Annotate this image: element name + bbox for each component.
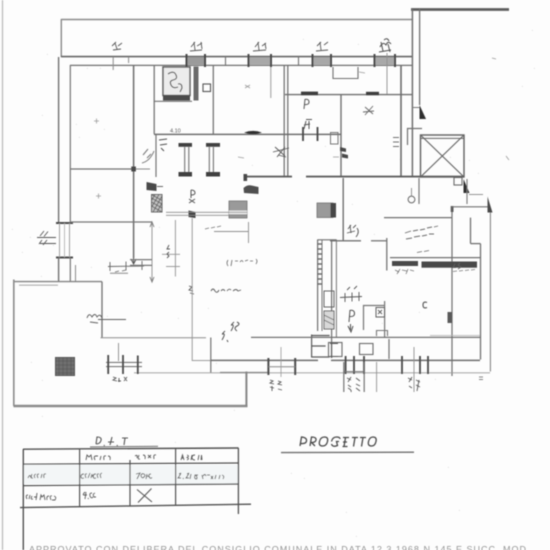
outer terrace top line — [61, 19, 412, 21]
right line y206 — [452, 206, 490, 208]
dim marks above wall cluster1 — [112, 42, 122, 50]
door jambs in wall y134 — [303, 127, 318, 141]
row2 col2 handwriting — [83, 492, 96, 499]
entrance lobby lines — [408, 129, 423, 146]
corridor wall y176 end cap — [244, 174, 248, 181]
left inner wall upper — [69, 65, 71, 223]
dim text 250 — [417, 251, 429, 253]
corridor wall y240 left — [330, 240, 361, 242]
bath left wall x154 — [153, 66, 155, 134]
central wall x285 — [283, 65, 285, 177]
double wall y265 — [130, 264, 152, 266]
closet box left of wall x341 — [331, 133, 339, 145]
balcony dark band left — [392, 261, 418, 266]
right wall top cap — [451, 206, 454, 212]
landing small rect below elevator — [454, 178, 462, 186]
row1 col2 handwriting — [81, 473, 102, 478]
door dim marks y266 — [108, 261, 144, 272]
row1 col3 handwriting — [136, 473, 152, 479]
outer wall x419 upper — [419, 9, 421, 105]
junction blob x133 y169 — [131, 167, 136, 172]
dim text 45 right — [453, 263, 461, 269]
svg-text:APPROVATO CON DELIBERA DEL CON: APPROVATO CON DELIBERA DEL CONSIGLIO COM… — [29, 544, 530, 550]
window W4 top wall — [374, 54, 396, 67]
dark blob on wall y94 left — [301, 92, 318, 96]
wall y257 right room — [390, 257, 480, 259]
wall y337 south — [251, 336, 480, 338]
variante text lines — [405, 226, 438, 239]
south jamb ticks mid — [346, 356, 364, 374]
bath fixtures south rect2 — [360, 344, 374, 355]
top wall band inner line — [70, 64, 412, 66]
landing tick y194 — [469, 194, 483, 196]
corridor wall y176 right segment — [306, 176, 464, 178]
table outer top — [23, 448, 239, 449]
gray rect top of hatch strip — [317, 203, 336, 218]
text below terrace window — [113, 377, 127, 382]
stair wall x419 below — [418, 178, 420, 204]
table row1 tint — [24, 465, 238, 484]
wall strip right of shower — [194, 67, 199, 101]
table bottom line — [20, 504, 251, 507]
right outer wall x480 — [480, 244, 482, 360]
terrace right wall x246 — [245, 372, 247, 407]
right outer wall x470 — [470, 218, 472, 244]
dim mark 2 — [189, 286, 194, 294]
wall x401 — [400, 65, 402, 177]
room cross mark A — [94, 119, 99, 124]
toilet room walls — [364, 301, 385, 337]
row1 col1 handwriting — [28, 474, 46, 478]
corridor wall y176 left segment — [244, 176, 292, 178]
band break tick b — [298, 57, 300, 66]
corridor double line — [166, 212, 247, 215]
terrace bottom thick line — [14, 405, 248, 407]
hatch strip lower boxes — [324, 291, 334, 329]
toilet fixture — [376, 308, 385, 318]
bath fixtures south rect1 — [329, 343, 343, 357]
door marks near x343 — [347, 225, 358, 237]
P mark with arrow corridor — [348, 310, 355, 332]
dim vertical x414 — [413, 347, 415, 392]
x mark room — [363, 106, 374, 115]
entrance dark wedge — [420, 105, 427, 119]
dark hatched square terrace — [56, 358, 75, 376]
table col line 2 — [129, 460, 131, 506]
left wall window symbol — [56, 223, 73, 258]
wall x285 intersection scribble — [273, 147, 289, 157]
interior wall x133 — [133, 65, 135, 258]
outer terrace top-left corner vertical — [60, 19, 62, 57]
corridor stub wall A — [179, 143, 193, 177]
landing wall x467 — [466, 179, 468, 204]
wall x341 — [340, 95, 342, 177]
table col line 3 — [175, 448, 177, 505]
scan edge line — [2, 0, 4, 550]
wall y94 — [285, 94, 412, 96]
rotated dim text a — [347, 377, 360, 392]
wall y217 — [384, 217, 452, 219]
corridor wall y240 right — [371, 240, 387, 242]
balcony step box below south wall — [344, 362, 364, 392]
room label C — [423, 302, 427, 308]
wall x104 — [101, 282, 103, 338]
soggiorno scribble — [211, 289, 241, 292]
south jamb ticks right — [402, 356, 428, 374]
right wall x452 — [451, 207, 453, 377]
dark blob on wall y94 right — [366, 92, 379, 95]
faint line y335 right — [430, 335, 480, 337]
left outer wall upper — [58, 57, 60, 223]
balcony dark band right — [422, 262, 478, 268]
small box beside shower — [203, 84, 211, 92]
top wall band outer line — [61, 56, 412, 58]
rotated dim text c — [459, 377, 461, 379]
title D.A.I. — [96, 437, 128, 446]
header text col2 — [86, 455, 110, 460]
small tick pair y377 — [479, 377, 483, 380]
room label h270 — [227, 259, 257, 266]
dark lens blob on wall y134 — [244, 131, 262, 134]
hinge dots wall x341 — [340, 147, 348, 159]
hatch strip right pair — [318, 240, 337, 359]
dark textured blob above rect — [244, 185, 259, 194]
window W3 top wall — [312, 54, 332, 67]
small P mark and cross — [189, 190, 195, 203]
crosshatch pillar — [152, 195, 163, 213]
dim vertical x376 below — [376, 362, 378, 392]
table col line 1 — [79, 449, 81, 507]
dim marks above wall cluster3 — [253, 42, 266, 51]
left inner wall lower — [69, 258, 71, 282]
shower threshold dark bar — [163, 95, 190, 101]
45 text below wall y134 — [159, 139, 167, 151]
landing dark wedge — [464, 179, 470, 193]
dim marks above wall cluster2 — [190, 42, 202, 51]
room cross mark B — [96, 194, 101, 199]
dim line y231 — [214, 222, 249, 243]
top-right roof line — [411, 8, 509, 11]
left wall window dim ticks — [37, 231, 56, 245]
dim line x152 with arrows — [150, 222, 154, 282]
corridor door marks y297 — [340, 286, 362, 302]
double wall y259 — [130, 259, 152, 261]
hatch strip left pair — [318, 240, 322, 332]
left outer wall lower — [58, 258, 60, 282]
left inner wall extra line — [75, 265, 77, 282]
row1 col4 handwriting — [178, 473, 224, 479]
wall y134 — [154, 133, 341, 135]
band break tick a — [225, 57, 227, 66]
header text col4 — [181, 455, 202, 460]
dim marks above wall cluster4 — [316, 42, 328, 51]
window bracket below strip — [312, 335, 330, 358]
outer wall x412 — [411, 9, 413, 177]
table right border — [237, 448, 239, 514]
wall x156 below bath — [155, 135, 157, 178]
door swing scribble P2 — [142, 149, 154, 163]
gray furniture rect corridor left — [229, 201, 247, 218]
window south x268-295 — [268, 347, 295, 377]
faint room marks — [238, 58, 509, 160]
entrance tick — [413, 107, 420, 109]
PROGETTO underline — [281, 451, 414, 453]
south wall y360 right segment — [331, 359, 480, 361]
shower box — [163, 67, 190, 96]
4x marks — [304, 120, 312, 130]
row2 X mark — [137, 489, 152, 503]
wall x133 arrow end — [131, 258, 136, 264]
long dim line y372 — [134, 372, 490, 374]
dashes left of wall x401 — [393, 138, 399, 147]
row2 col1 handwriting — [26, 493, 56, 500]
closet notch top-right room — [333, 67, 358, 79]
dark blob below P — [189, 211, 196, 219]
south wall y360 left segment — [211, 359, 318, 361]
corridor wall x386 — [386, 238, 388, 271]
dim text above y231 — [205, 226, 221, 229]
svg-text:4.10: 4.10 — [170, 129, 181, 135]
title PROGETTO — [300, 437, 376, 447]
long line y338 — [101, 337, 207, 339]
header text col3 — [135, 455, 156, 459]
corridor wall x343 — [342, 178, 344, 241]
text below window 268 — [270, 380, 282, 391]
P mark below wall y94 — [304, 99, 309, 109]
elevator shaft box with X — [421, 135, 465, 177]
protruding box above y337 — [377, 331, 388, 337]
partition y169 spur — [134, 168, 150, 170]
partition y169 left — [70, 168, 134, 170]
terrace top second line — [19, 284, 58, 286]
partition y222 — [70, 221, 152, 223]
right outer step y243 — [471, 243, 481, 245]
wall x389 short — [388, 339, 390, 359]
terrace left wall — [13, 280, 15, 407]
dim text 235 italic — [222, 322, 239, 342]
dim line x175 — [162, 220, 180, 277]
dim corner y360 — [192, 360, 220, 362]
dim text 45 vertical — [167, 245, 170, 258]
hook circle mark — [408, 196, 415, 203]
table row line — [23, 484, 239, 486]
small bracket x331 — [330, 342, 338, 358]
bottom cut text — [29, 544, 530, 550]
rotated dim text b — [408, 377, 420, 391]
right outer line x490 — [489, 208, 491, 372]
window W1 top wall — [186, 54, 206, 67]
balcony band marks below — [395, 269, 475, 274]
right wall blob x452 — [448, 312, 453, 323]
window W2 top wall — [248, 54, 272, 67]
dim line x387 — [386, 53, 388, 94]
dim line x192 — [191, 218, 193, 361]
wall y273 short — [110, 272, 128, 274]
scribble marks left terrace — [87, 315, 126, 324]
bath bottom line y101 — [154, 100, 192, 102]
dark door blob left — [147, 182, 164, 191]
terrace top line y281 — [14, 281, 103, 283]
terrace window cluster left — [106, 343, 142, 374]
dim marks above wall cluster5 plant squiggle — [379, 39, 391, 52]
south second wall y372 bath — [220, 372, 269, 374]
table left border — [22, 449, 24, 550]
D.A.I. underline — [90, 445, 158, 448]
table header line — [23, 463, 239, 464]
corridor stub wall B — [206, 143, 220, 177]
right dark wedge x488 — [488, 197, 493, 213]
